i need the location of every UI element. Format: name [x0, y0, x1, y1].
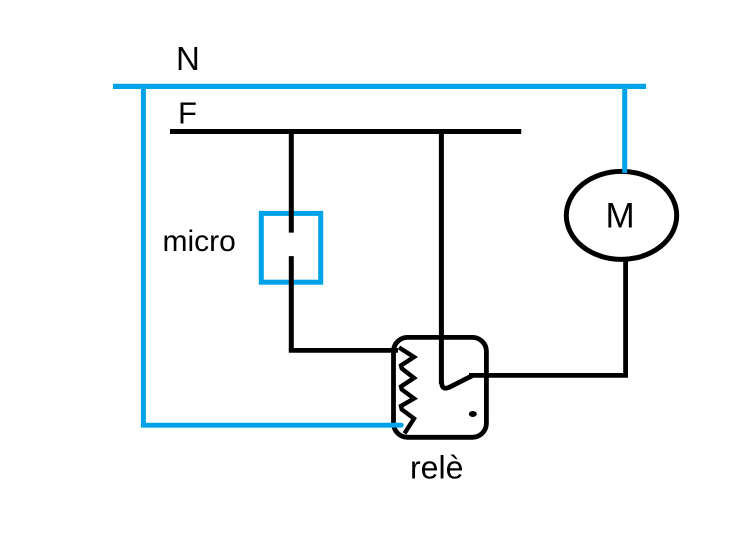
wire F bus (black horizontal)	[170, 129, 521, 134]
motor M	[566, 171, 676, 259]
relay switch arm	[442, 376, 473, 388]
switch micro enclosure (blue box)	[261, 213, 320, 282]
svg-text:M: M	[606, 197, 635, 236]
wire relay to motor	[469, 259, 626, 375]
wire F to micro switch top contact	[289, 131, 294, 233]
wire neutral bottom run to relay coil (blue horizontal, over relay edge)	[141, 423, 401, 428]
wire F to relay common pole	[439, 131, 444, 384]
wire blue round tip	[399, 423, 404, 428]
wire micro switch bottom contact	[289, 256, 294, 350]
relay enclosure	[394, 337, 487, 437]
relay NO contact dot	[469, 411, 477, 417]
wire micro to relay coil	[289, 348, 398, 353]
wire neutral left drop (blue vertical)	[141, 84, 146, 428]
wire neutral drop to motor (blue, drawn over ellipse edge)	[622, 86, 627, 173]
svg-text:N: N	[176, 40, 200, 77]
svg-text:F: F	[178, 96, 197, 131]
svg-text:micro: micro	[163, 225, 236, 258]
wire N bus (blue horizontal)	[113, 84, 646, 89]
svg-text:relè: relè	[410, 450, 463, 486]
relay coil zigzag	[399, 348, 414, 434]
